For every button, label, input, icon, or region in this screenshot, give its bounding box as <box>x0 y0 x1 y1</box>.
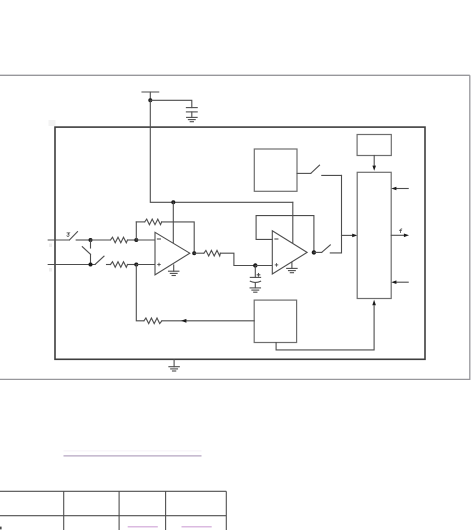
feedback wire U2 <box>256 216 314 253</box>
wire <box>314 251 322 253</box>
switch S1 <box>69 232 77 240</box>
power rail V+ <box>142 92 159 100</box>
resistor R4 <box>144 318 162 324</box>
wire <box>194 252 204 254</box>
arrow output f <box>391 234 409 238</box>
arrow input right bottom <box>391 280 408 284</box>
arrow into counter block <box>342 234 358 238</box>
switch S4 <box>322 245 331 253</box>
label f <box>399 229 401 233</box>
IC boundary box <box>55 127 425 359</box>
node: supply junction <box>148 98 152 102</box>
node B <box>134 238 138 242</box>
ground (U2) <box>287 262 297 273</box>
table grid <box>0 491 226 530</box>
wire <box>330 175 341 253</box>
wire op-amp U2 supply <box>292 202 294 243</box>
node U1 output <box>192 251 196 255</box>
link underline cell 3 <box>128 526 158 528</box>
page frame (decorative) <box>0 75 470 379</box>
faint pin text marks <box>49 120 56 272</box>
wire <box>128 264 137 266</box>
text fragment bottom left <box>0 527 2 530</box>
arrow oscillator to counter <box>372 156 376 171</box>
pin stub input 2 <box>48 264 95 266</box>
ground (C1) <box>187 117 198 121</box>
switch S2 <box>95 256 104 264</box>
wire <box>322 174 342 176</box>
wire supply to bypass cap <box>150 100 192 107</box>
op-amp U1 <box>155 232 190 275</box>
wire to U2 noninverting input <box>255 265 272 267</box>
counter block <box>357 172 391 298</box>
integrator block <box>254 300 296 342</box>
ground (IC case) <box>169 359 179 371</box>
wire to U1 noninverting input <box>136 264 155 266</box>
resistor RF (feedback) <box>145 219 162 225</box>
hyperlink underline (upper) <box>64 450 202 452</box>
ground (C2) <box>250 288 260 292</box>
wire fb lower tap <box>136 265 144 321</box>
node C <box>89 263 93 267</box>
wire <box>91 239 111 241</box>
node on supply line <box>171 200 175 204</box>
wire <box>136 221 144 223</box>
link underline cell 4 <box>182 526 212 528</box>
node D <box>134 263 138 267</box>
wire <box>128 239 137 241</box>
comparator block A3 <box>254 149 297 191</box>
wire <box>220 253 255 265</box>
chopper switch S3 <box>82 240 90 265</box>
wire <box>76 239 90 241</box>
wire with arrow from integrator <box>162 319 254 323</box>
wire <box>107 264 111 266</box>
resistor R3 <box>204 250 221 256</box>
capacitor C1 <box>186 108 197 118</box>
wire to U1 inverting input <box>136 239 155 241</box>
wire integrator to counter <box>276 300 376 350</box>
op-amp U2 <box>272 231 307 274</box>
wire op-amp U1 supply <box>172 202 174 243</box>
label 3 <box>67 233 70 236</box>
wire fb tap <box>135 222 137 240</box>
arrow input right top <box>391 187 408 191</box>
wire <box>162 222 195 253</box>
switch S5 <box>311 165 320 173</box>
wire from A3 <box>297 172 311 174</box>
node E <box>253 263 257 267</box>
pin stub input 1 <box>48 239 69 241</box>
node A <box>89 238 93 242</box>
resistor R2 <box>111 262 128 268</box>
oscillator block <box>357 135 391 156</box>
capacitor C2 (polarized) <box>250 266 260 288</box>
resistor R1 <box>111 237 128 243</box>
wire supply into IC <box>150 100 292 202</box>
ground (U1) <box>169 265 179 276</box>
node U2 output <box>312 250 316 254</box>
